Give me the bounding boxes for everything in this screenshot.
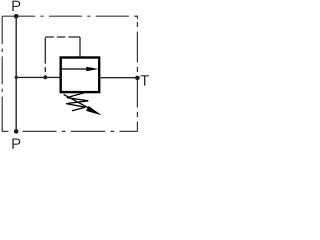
node T — [135, 76, 140, 81]
node P top — [14, 14, 19, 19]
wire: outlet line to T — [99, 77, 137, 79]
node: inlet branch junction on P line — [15, 76, 18, 79]
wire: inlet branch to valve — [16, 76, 61, 78]
port label P (top) — [12, 1, 20, 11]
enclosure boundary left — [1, 16, 3, 131]
node P bottom — [14, 129, 19, 134]
adjustment arrow across spring — [64, 94, 92, 109]
node: pilot tap junction — [43, 76, 47, 80]
flow arrow head — [86, 67, 98, 71]
port label T — [140, 75, 148, 85]
enclosure boundary right — [136, 16, 138, 19]
pilot line (dashed) top run — [45, 36, 80, 38]
enclosure boundary bottom — [2, 130, 8, 132]
spring (zigzag, below valve) — [66, 93, 88, 111]
wire: P supply line (vertical) — [15, 16, 17, 131]
port label P (bottom) — [12, 138, 20, 148]
flow arrow inside valve (offset, closed position) — [62, 68, 88, 70]
valve body square V1 — [61, 58, 99, 93]
adjustment arrow head — [86, 106, 102, 115]
enclosure boundary (chain-dot frame) top — [2, 15, 137, 17]
pilot line drop to valve top — [79, 37, 81, 58]
pilot line (dashed) riser from tap — [44, 37, 46, 77]
